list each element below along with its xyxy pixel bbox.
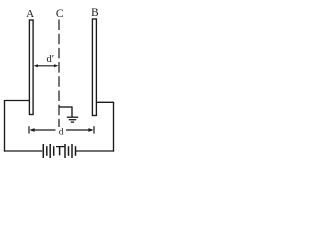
ground [67, 117, 78, 122]
dimension arrow d right part (arrow + tick) [66, 126, 94, 133]
svg-text:B: B [91, 7, 98, 19]
svg-text:d′: d′ [47, 54, 55, 65]
svg-text:C: C [56, 7, 64, 20]
svg-text:A: A [26, 8, 34, 20]
wire bottom left [4, 150, 42, 152]
wire bottom right [76, 150, 115, 152]
plate A [29, 20, 33, 115]
label d' [47, 54, 55, 65]
plate B [92, 19, 96, 116]
wire from line C to ground [59, 106, 72, 117]
dashed line C (grid) [58, 20, 60, 128]
battery (multi-cell) [43, 144, 75, 158]
dimension arrow d' (plate A to line C) [34, 64, 59, 67]
label B [91, 7, 98, 19]
label C [56, 7, 64, 20]
wire right horizontal (plate B to right side) [96, 101, 114, 103]
wire right vertical [113, 102, 115, 152]
dimension arrow d left part (tick + arrow) [29, 126, 56, 133]
wire left vertical [4, 100, 6, 152]
label A [26, 8, 34, 20]
label d [59, 126, 64, 136]
wire left horizontal (plate A to left side) [5, 100, 30, 102]
svg-text:d: d [59, 126, 64, 136]
